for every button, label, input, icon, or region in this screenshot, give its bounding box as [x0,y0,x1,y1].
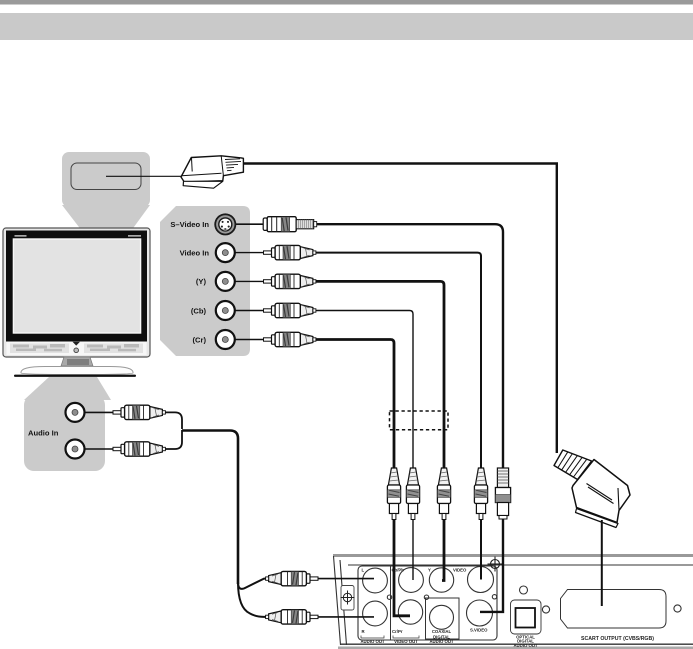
svg-text:Y: Y [428,568,431,573]
svg-text:Cr/Pr: Cr/Pr [392,629,403,634]
svg-text:(Cr): (Cr) [193,335,207,344]
svg-text:VIDEO: VIDEO [453,568,467,573]
svg-text:Video In: Video In [180,248,210,257]
svg-text:S–Video In: S–Video In [170,220,209,229]
svg-text:AUDIO OUT: AUDIO OUT [513,643,537,648]
svg-text:(Y): (Y) [196,277,207,286]
svg-text:COAXIAL: COAXIAL [432,629,452,634]
svg-text:VIDEO OUT: VIDEO OUT [394,639,418,644]
svg-text:AUDIO OUT: AUDIO OUT [429,639,453,644]
svg-text:(Cb): (Cb) [191,306,207,315]
svg-text:SCART OUTPUT (CVBS/RGB): SCART OUTPUT (CVBS/RGB) [581,636,654,642]
svg-text:AUDIO OUT: AUDIO OUT [360,639,384,644]
svg-text:S.VIDEO: S.VIDEO [470,628,488,633]
svg-text:L: L [362,568,365,573]
svg-text:Audio In: Audio In [28,428,59,437]
